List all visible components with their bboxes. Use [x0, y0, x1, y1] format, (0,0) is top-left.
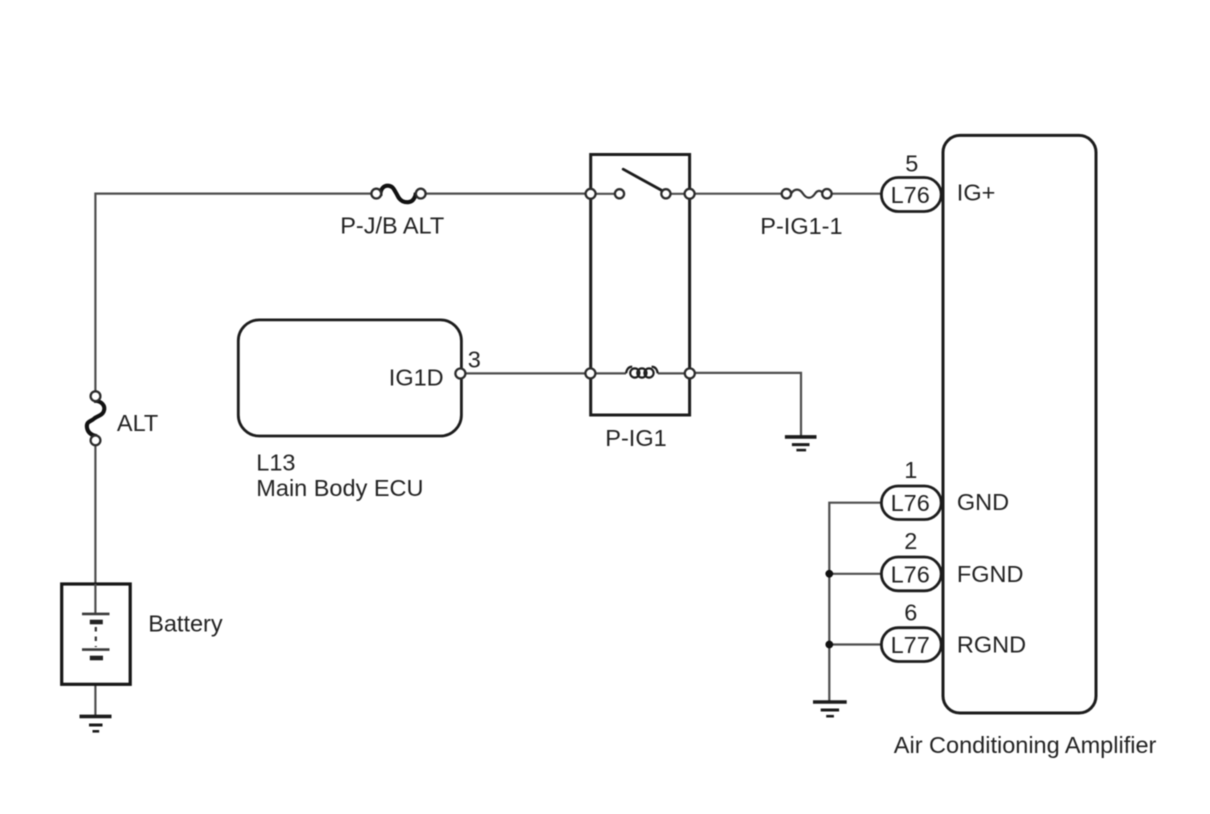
svg-text:2: 2	[904, 528, 917, 554]
svg-text:5: 5	[905, 150, 918, 176]
label P-J/B ALT	[340, 213, 444, 239]
pin number 3	[468, 346, 481, 372]
svg-text:1: 1	[904, 457, 917, 483]
label Air Conditioning Amplifier	[894, 732, 1157, 758]
label Main Body ECU	[256, 475, 423, 501]
wire: battery bottom to ground	[94, 658, 96, 716]
svg-text:L76: L76	[891, 490, 930, 516]
wire: relay internal top row	[591, 193, 690, 195]
wire: RGND pin branch	[829, 643, 881, 645]
fuse ALT (fusible link squiggle, vertical)	[87, 391, 104, 445]
relay coil	[626, 367, 658, 378]
wire	[95, 194, 881, 716]
wire: battery feed vertical below ALT fuse	[94, 440, 96, 613]
ground (amplifier)	[813, 702, 847, 716]
switch arm (relay contact)	[623, 169, 662, 190]
battery box	[62, 584, 131, 684]
svg-text:ALT: ALT	[117, 410, 158, 436]
pin number 5	[905, 150, 918, 176]
label IG1D	[389, 364, 444, 390]
svg-text:L77: L77	[891, 632, 930, 658]
label P-IG1-1	[760, 213, 842, 239]
label ALT	[117, 410, 158, 436]
svg-text:RGND: RGND	[957, 632, 1026, 658]
relay P-IG1 box	[591, 155, 690, 416]
pin 3 terminal circle	[455, 369, 465, 379]
svg-text:IG1D: IG1D	[389, 364, 444, 390]
wire: relay coil right to ground drop	[690, 373, 801, 436]
fuse P-IG1-1 (thin wave)	[782, 189, 832, 198]
svg-text:L76: L76	[891, 561, 930, 587]
label GND	[957, 489, 1009, 515]
svg-text:Air Conditioning Amplifier: Air Conditioning Amplifier	[894, 732, 1157, 758]
ground (relay coil)	[785, 437, 817, 450]
pin number 6	[904, 600, 917, 626]
wire: battery feed vertical x=95 top segment	[95, 194, 378, 396]
svg-text:Battery: Battery	[148, 611, 223, 637]
svg-text:P-IG1-1: P-IG1-1	[760, 213, 842, 239]
label Battery	[148, 611, 223, 637]
wire: relay right to P-IG1-1 fuse	[690, 193, 787, 195]
pin number 2	[904, 528, 917, 554]
connector pin 1 L76	[881, 486, 941, 520]
svg-text:GND: GND	[957, 489, 1009, 515]
junction node FGND	[825, 570, 833, 578]
battery cell symbol	[82, 584, 110, 658]
connector pin 5 L76	[881, 178, 941, 212]
svg-text:IG+: IG+	[957, 180, 996, 206]
svg-text:L13: L13	[256, 450, 295, 476]
svg-text:Main Body ECU: Main Body ECU	[256, 475, 423, 501]
wire: ECU pin 3 to relay coil left	[460, 372, 590, 374]
wire: top horizontal after P-J/B ALT fuse to relay	[419, 193, 591, 195]
Air Conditioning Amplifier box	[943, 135, 1096, 713]
label FGND	[957, 561, 1024, 587]
fuse P-J/B ALT (fusible link squiggle)	[371, 186, 425, 203]
ground (battery)	[80, 716, 112, 731]
svg-text:L76: L76	[891, 182, 930, 208]
wire: FGND pin branch	[829, 573, 881, 575]
connector pin 2 L76	[881, 557, 941, 591]
relay terminal circles	[585, 189, 694, 379]
junction node RGND	[825, 641, 833, 649]
ECU box L13	[238, 320, 461, 436]
svg-text:P-IG1: P-IG1	[605, 425, 666, 451]
pin number 1	[904, 457, 917, 483]
svg-text:FGND: FGND	[957, 561, 1024, 587]
svg-text:P-J/B ALT: P-J/B ALT	[340, 213, 444, 239]
label RGND	[957, 632, 1026, 658]
svg-text:6: 6	[904, 600, 917, 626]
label L13	[256, 450, 295, 476]
svg-text:3: 3	[468, 346, 481, 372]
connector pin 6 L77	[881, 628, 941, 662]
wire: P-IG1-1 fuse to pin 5 connector	[827, 193, 882, 195]
wire: relay internal bottom row	[590, 372, 689, 374]
label P-IG1	[605, 425, 666, 451]
wire: GND pin to ground bus	[829, 503, 881, 701]
label IG+	[957, 180, 996, 206]
